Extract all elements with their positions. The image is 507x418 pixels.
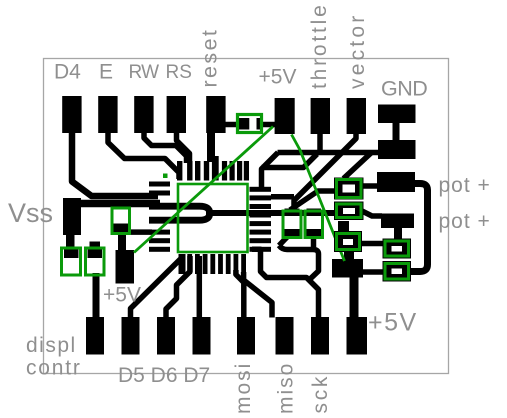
pad throttle [311,98,330,134]
pad sck [311,317,329,355]
wire hairpin center line to K2 [206,210,338,216]
pad +5V feed [332,259,363,278]
pad D4 [62,96,81,133]
wire vector to component pair [294,133,356,212]
micro-controller U1 footprint [149,156,271,274]
U1 left pins [149,182,170,187]
component pair2 (right of U1) [305,209,323,238]
U1 bottom pins [179,254,186,274]
svg-text:GND: GND [381,77,427,101]
svg-text:D5 D6 D7: D5 D6 D7 [118,364,210,387]
wire D7 to chip [197,256,203,318]
svg-text:pot +: pot + [439,174,491,197]
wire K1 left to pair rect1 [290,191,335,210]
wire GND pads link [393,120,400,142]
component K5 [383,261,412,282]
resistor R1 (reset pull-up) [238,115,262,133]
board outline [44,59,449,374]
wire resistor R1 to +5V pad [260,122,276,128]
component K1 [334,178,364,200]
svg-text:+5V: +5V [103,284,141,307]
component K2 [334,202,364,221]
wire vss rect bottom stub [118,231,126,252]
pad pot2 [381,214,414,229]
wire feed to +5V bottom [350,276,359,318]
pad miso [276,317,294,355]
wire K3 bottom to feed stub [344,248,354,261]
wire component pair1 bottom stub [279,234,290,246]
pad GND lower [378,140,416,159]
wire branch to corner [262,154,318,168]
wire component K3 to K4 [359,241,385,247]
U1 outline [178,184,248,252]
pad D6 [157,317,175,355]
wire chip right pin2 stub [271,194,294,200]
U1 hairpin trace [149,206,210,220]
svg-text:mosi: mosi [232,362,255,414]
pad +5V top [275,98,295,134]
wire component K2 to pot pad 2 [361,211,382,217]
wire rounded bend under pair [279,246,319,281]
wire +5V left rect to chip [129,229,152,235]
wire r2 top stub [90,242,101,251]
wire feed pad to K5 [363,269,385,275]
wire miso to chip [244,272,272,318]
pad displ contr [86,317,104,355]
wire Vss to chip [81,200,160,208]
silkscreen green layer [134,127,345,262]
component r2 (left pair) [86,248,105,275]
svg-text:throttle: throttle [308,2,331,89]
wire pot2 to K4 stub [394,228,402,241]
pad +5V left [116,250,135,284]
wire component K1 to pot pad 1 [361,183,377,189]
pad pot1 [377,172,415,192]
wire pot loop right side [408,184,428,272]
svg-text:Vss: Vss [8,198,53,228]
pad Vss [63,198,81,235]
svg-text:D4: D4 [54,61,81,84]
wire reset pad to resistor R1 [225,122,239,128]
component r1 (left pair) [62,248,81,275]
svg-text:sck: sck [309,374,332,414]
pin1 dot [163,174,168,179]
svg-text:+5V: +5V [368,309,418,337]
wire D4 to chip [72,130,158,196]
wire D6 to chip [166,256,190,318]
pad RW [134,96,153,133]
svg-text:pot +: pot + [439,210,491,233]
svg-text:vector: vector [346,13,369,89]
pad E [98,96,117,133]
pad GND upper [378,105,416,124]
pad +5V bottom [347,317,368,355]
svg-text:E: E [99,61,113,84]
pad reset [206,96,225,133]
wire K2 bottom to K3 top stub [338,221,349,236]
U1 top pins [177,161,182,181]
pad RS [167,96,186,133]
component pair1 (right of U1) [283,209,301,238]
wire elbow down to chip right pin 1 [262,153,279,189]
wire E to chip [108,130,179,179]
silkscreen line +5V top to +5V feed [292,135,345,262]
svg-text:reset: reset [198,28,222,88]
component K4 [383,239,412,259]
pad mosi [237,317,255,355]
pad D5 [122,317,140,355]
svg-text:+5V: +5V [259,66,297,89]
wire reset to chip [207,130,215,162]
svg-text:miso: miso [275,362,298,414]
silkscreen line +5V top to +5V left [134,127,273,253]
wire D5 to chip [131,255,183,318]
svg-text:RS: RS [166,62,192,83]
wire GND to component K1 [344,153,372,179]
component near Vss trace [112,208,130,234]
wire mosi to chip [236,270,244,318]
wire sck to chip [252,249,319,317]
wire +5V top region horizontal to GND [278,150,379,156]
wire Vss bottom stub [66,234,75,250]
wire r2 bottom to displ pad [93,273,100,318]
wire component pair2 bottom stub [311,234,317,247]
wire RW to chip [144,130,187,163]
component K3 [334,231,362,252]
pad vector [347,98,366,134]
pad D7 [193,317,211,355]
svg-text:RW: RW [129,62,160,83]
wire RS to chip [177,130,190,163]
wire throttle stub [317,133,323,153]
U1 right pins [250,187,272,192]
svg-text:contr: contr [26,357,82,380]
svg-text:displ: displ [26,334,77,357]
